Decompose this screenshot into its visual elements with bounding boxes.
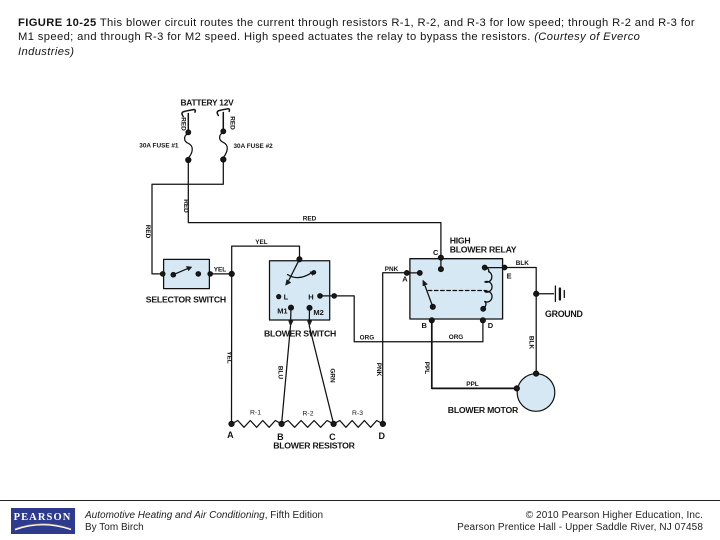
fuse F2 30A xyxy=(220,129,228,162)
label R-3 xyxy=(352,410,363,417)
label 30A FUSE #2 xyxy=(234,143,274,150)
label YEL (selector output) xyxy=(214,267,227,274)
label SELECTOR SWITCH xyxy=(146,295,226,305)
label RED (left battery lead) xyxy=(179,117,186,131)
svg-text:RED: RED xyxy=(303,216,317,223)
wire ORG blower switch H to relay terminal D xyxy=(320,294,483,342)
label PPL (vertical) xyxy=(423,362,430,375)
wire RED from fuse F1 to relay terminal C xyxy=(188,160,441,258)
svg-text:PNK: PNK xyxy=(385,266,399,273)
label PPL (horizontal) xyxy=(466,381,479,388)
label BLOWER SWITCH xyxy=(264,328,336,338)
svg-text:30A FUSE #2: 30A FUSE #2 xyxy=(234,143,274,150)
svg-text:YEL: YEL xyxy=(214,267,227,274)
svg-text:BLOWER RELAY: BLOWER RELAY xyxy=(450,244,517,254)
battery label BATTERY 12V xyxy=(181,97,235,107)
node YEL junction xyxy=(229,271,234,276)
svg-text:M1: M1 xyxy=(277,307,287,316)
relay terminal B (bottom edge) xyxy=(422,318,435,330)
svg-text:H: H xyxy=(308,293,313,302)
node ground junction xyxy=(534,291,539,296)
svg-text:M2: M2 xyxy=(313,308,323,317)
label YEL (vertical drop) xyxy=(225,351,232,364)
blower switch arm xyxy=(286,259,316,285)
wire BLU M1 to resistor B xyxy=(282,326,291,424)
wire PNK relay terminal A to resistor D xyxy=(383,273,408,424)
svg-text:BLOWER RESISTOR: BLOWER RESISTOR xyxy=(273,440,355,450)
blower switch L contact xyxy=(277,293,289,302)
selector switch contacts and arm xyxy=(161,266,213,277)
node resistor terminal B xyxy=(277,421,284,441)
wire YEL junction up to blower switch xyxy=(232,246,300,274)
label R-2 xyxy=(303,411,314,418)
svg-text:RED: RED xyxy=(144,225,151,239)
label YEL (top run) xyxy=(255,239,268,246)
svg-text:B: B xyxy=(422,321,428,330)
resistor R-1 zigzag A-B xyxy=(232,421,282,428)
relay terminal D (bottom edge) xyxy=(481,318,494,330)
blower switch M1 contact xyxy=(277,305,293,316)
svg-text:R-1: R-1 xyxy=(250,410,261,417)
svg-text:L: L xyxy=(284,293,289,302)
svg-text:GRN: GRN xyxy=(328,368,335,383)
battery terminal clip left xyxy=(182,110,195,117)
blower switch M2 contact xyxy=(307,306,324,318)
label ORG (right) xyxy=(449,334,464,341)
label GRN xyxy=(328,368,335,383)
selector switch box xyxy=(164,259,210,288)
svg-text:PPL: PPL xyxy=(466,381,479,388)
svg-text:GROUND: GROUND xyxy=(545,309,583,319)
svg-text:BLK: BLK xyxy=(528,336,535,350)
label RED (right battery lead) xyxy=(228,116,235,130)
battery terminal clip right xyxy=(217,109,229,116)
label GROUND xyxy=(545,309,583,319)
svg-text:RED: RED xyxy=(179,117,186,131)
svg-text:R-2: R-2 xyxy=(303,411,314,418)
high blower relay box xyxy=(410,259,503,319)
svg-text:BLOWER MOTOR: BLOWER MOTOR xyxy=(448,405,519,415)
svg-text:PNK: PNK xyxy=(375,363,382,377)
wire battery right lead xyxy=(222,113,224,132)
label RED (vertical, left drop) xyxy=(144,225,151,239)
svg-text:ORG: ORG xyxy=(360,334,375,341)
arrow from M1 down xyxy=(289,308,293,326)
wire YEL selector to junction xyxy=(210,273,232,275)
svg-text:ORG: ORG xyxy=(449,334,464,341)
Pearson logo xyxy=(11,508,75,534)
svg-text:R-3: R-3 xyxy=(352,410,363,417)
wire RED from fuse F2 to selector switch xyxy=(152,160,223,274)
svg-text:BLU: BLU xyxy=(277,366,284,380)
svg-text:BLK: BLK xyxy=(516,260,530,267)
label RED (horizontal run) xyxy=(303,216,317,223)
wire YEL junction down to resistor terminal A xyxy=(231,274,233,424)
label BLU xyxy=(277,366,284,380)
svg-text:YEL: YEL xyxy=(225,351,232,364)
blower switch box xyxy=(270,261,330,320)
wire PPL relay B to blower motor (heavy) xyxy=(432,320,517,388)
svg-text:SELECTOR SWITCH: SELECTOR SWITCH xyxy=(146,295,226,305)
resistor R-2 zigzag B-C xyxy=(282,421,334,428)
relay arm B xyxy=(423,280,435,309)
label ORG (left) xyxy=(360,334,375,341)
svg-text:A: A xyxy=(402,274,408,283)
arrow from M2 down xyxy=(307,308,311,326)
label RED (vertical, fuse1 drop) xyxy=(182,199,189,213)
blower switch H contact xyxy=(308,293,322,302)
node resistor terminal C xyxy=(329,421,336,442)
node resistor terminal D xyxy=(378,421,385,440)
svg-text:BLOWER SWITCH: BLOWER SWITCH xyxy=(264,328,336,338)
node resistor terminal A xyxy=(227,421,234,439)
label R-1 xyxy=(250,410,261,417)
label BLK (vertical) xyxy=(528,336,535,350)
relay terminal E xyxy=(485,265,512,280)
label PNK (horizontal) xyxy=(385,266,399,273)
svg-text:D: D xyxy=(488,321,494,330)
svg-text:D: D xyxy=(378,431,385,441)
svg-text:E: E xyxy=(507,272,512,281)
svg-text:30A FUSE #1: 30A FUSE #1 xyxy=(139,142,179,149)
label BLOWER RESISTOR xyxy=(273,440,355,450)
svg-text:PPL: PPL xyxy=(423,362,430,375)
wire battery left lead xyxy=(187,114,189,133)
relay terminal A xyxy=(402,271,422,284)
svg-text:A: A xyxy=(227,430,234,440)
label BLOWER MOTOR xyxy=(448,405,519,415)
label 30A FUSE #1 xyxy=(139,142,179,149)
relay coil xyxy=(481,265,492,311)
resistor R-3 zigzag C-D xyxy=(334,421,383,428)
wire GRN M2 to resistor C xyxy=(309,326,333,424)
relay dashed actuation line xyxy=(428,290,486,292)
ground symbol xyxy=(555,286,564,302)
svg-text:RED: RED xyxy=(182,199,189,213)
svg-text:RED: RED xyxy=(228,116,235,130)
svg-text:BATTERY 12V: BATTERY 12V xyxy=(181,97,235,107)
svg-text:YEL: YEL xyxy=(255,239,268,246)
blower switch top terminal xyxy=(297,257,302,262)
wire to ground symbol xyxy=(536,293,553,295)
svg-text:C: C xyxy=(433,248,439,257)
label PNK (vertical) xyxy=(375,363,382,377)
label HIGH BLOWER RELAY xyxy=(450,236,517,255)
blower motor xyxy=(514,371,555,411)
label BLK (horizontal) xyxy=(516,260,530,267)
fuse F1 30A xyxy=(185,130,193,163)
wire BLK relay E to ground and blower motor xyxy=(505,268,537,374)
relay terminal C xyxy=(433,248,443,271)
